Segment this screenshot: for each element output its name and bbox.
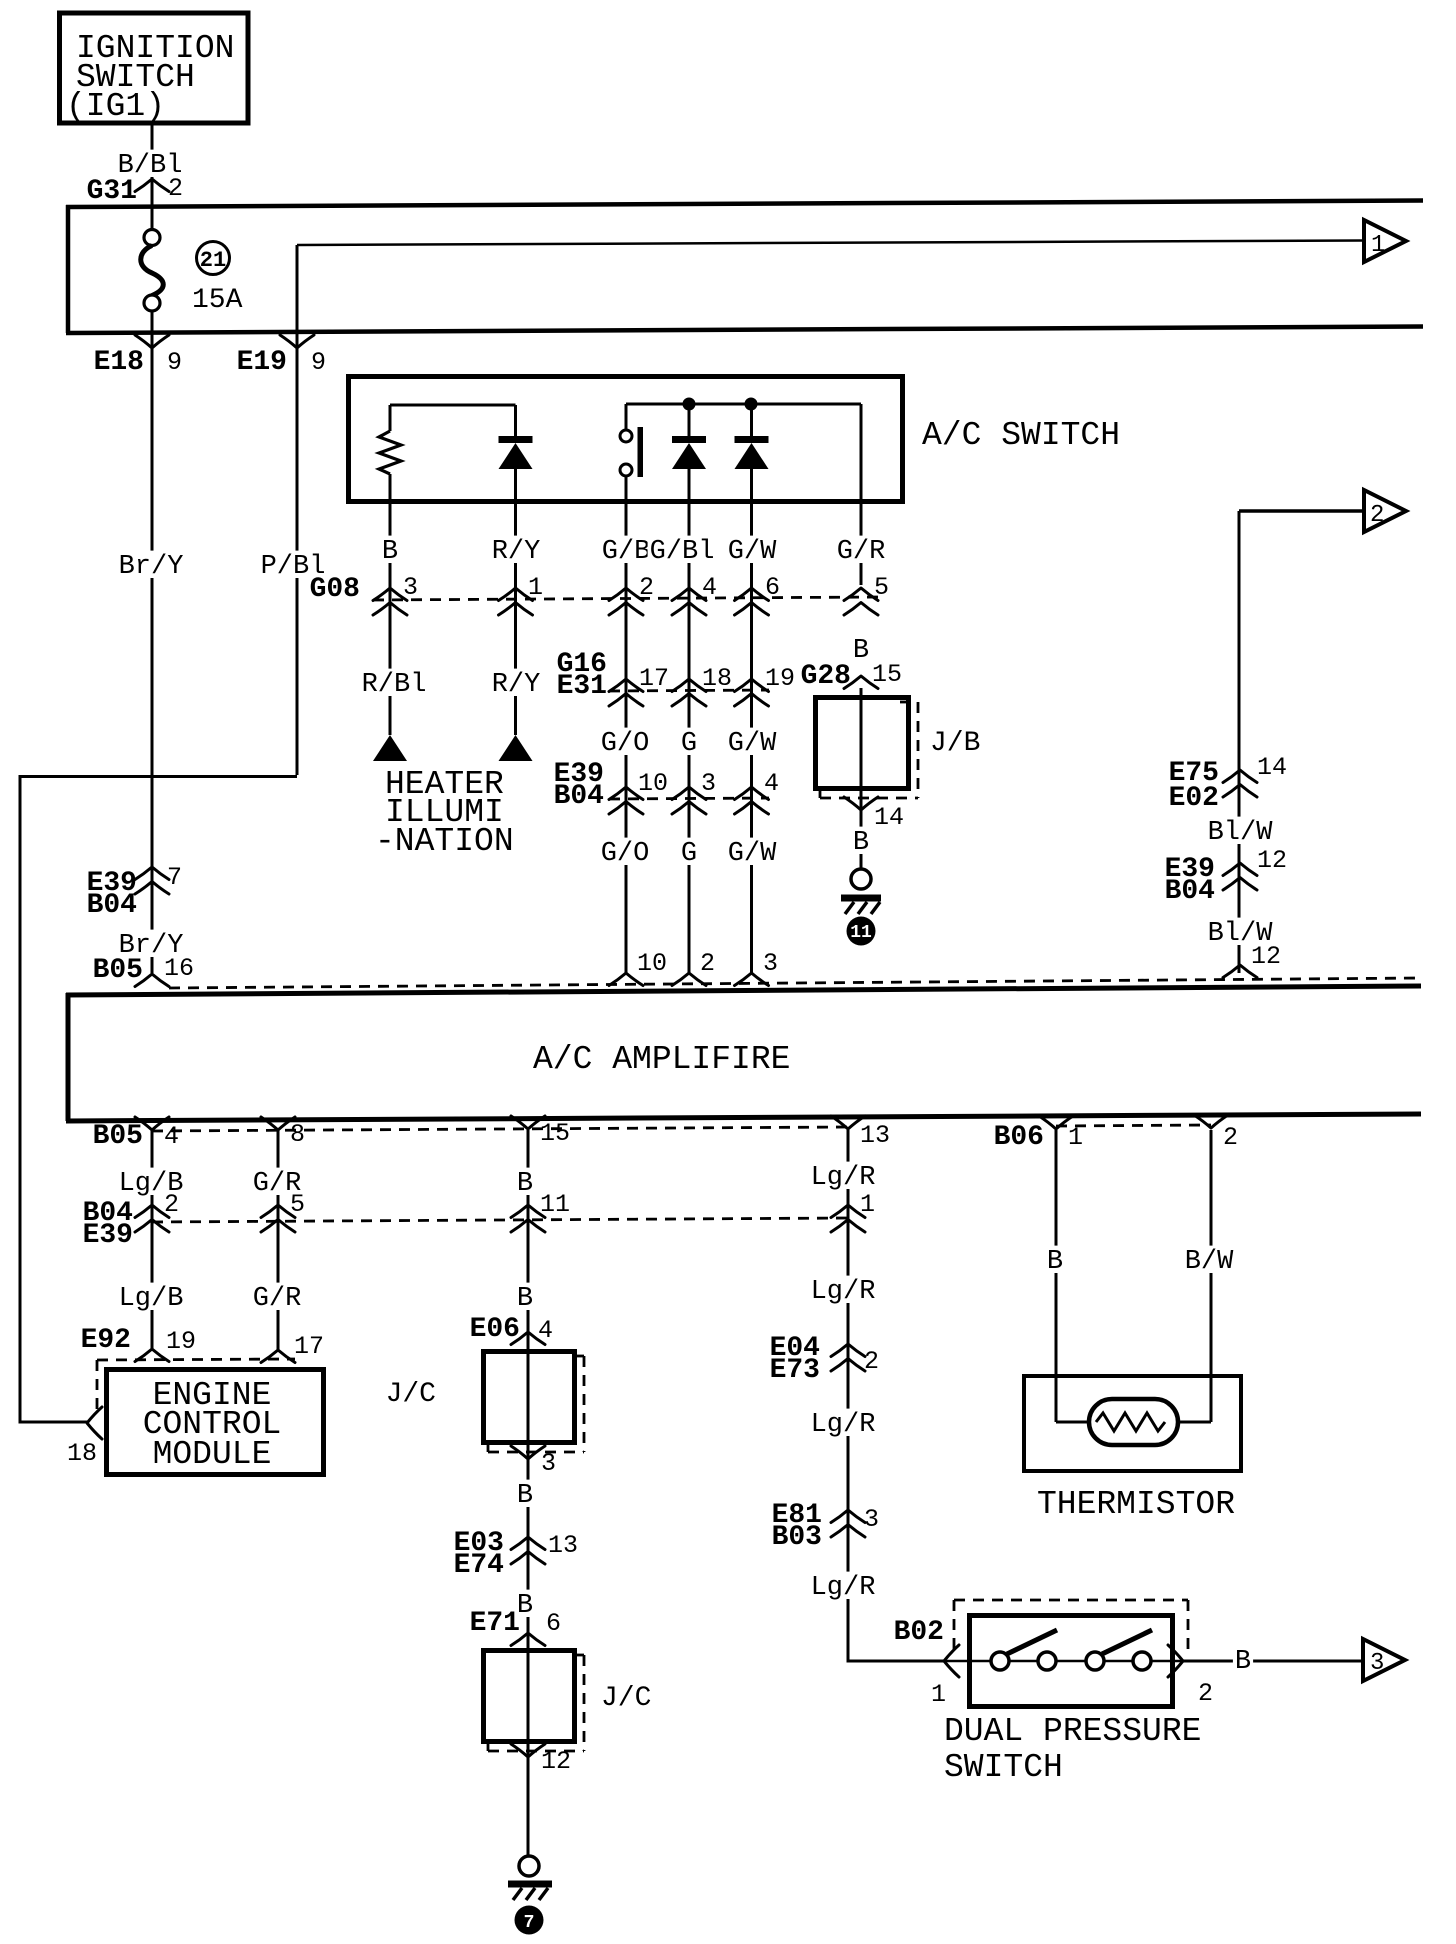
svg-text:B02: B02	[894, 1617, 944, 1648]
svg-text:13: 13	[548, 1531, 578, 1560]
svg-text:15: 15	[540, 1119, 570, 1148]
svg-text:A/C AMPLIFIRE: A/C AMPLIFIRE	[533, 1041, 790, 1078]
connector E39/B04 pin 10	[609, 769, 668, 814]
svg-text:G: G	[681, 839, 697, 869]
svg-text:E92: E92	[81, 1325, 131, 1356]
connector G16/E31 pin 17	[609, 664, 669, 706]
svg-text:B: B	[517, 1284, 533, 1314]
svg-text:B04: B04	[1165, 876, 1215, 907]
svg-text:2: 2	[1198, 1679, 1213, 1708]
wire B above G28	[851, 635, 871, 666]
svg-text:3: 3	[864, 1505, 879, 1534]
wire G/Bl (A/C switch pin 4)	[648, 536, 717, 567]
svg-text:G/R: G/R	[253, 1284, 302, 1314]
wire to off-page arrow 1	[297, 241, 1363, 332]
ground number 7	[515, 1906, 544, 1935]
heater illumination label	[375, 766, 514, 860]
connector E92 pin 19	[81, 1325, 196, 1362]
svg-text:A/C SWITCH: A/C SWITCH	[922, 417, 1120, 454]
connector E75/E02 pin 14	[1169, 753, 1287, 814]
wire B above E71	[515, 1590, 535, 1621]
connector E92 pin 18	[67, 1407, 102, 1468]
connector B04/E39 pin 11	[511, 1190, 570, 1232]
svg-text:E71: E71	[470, 1608, 520, 1639]
svg-text:E73: E73	[770, 1355, 820, 1386]
svg-text:3: 3	[403, 573, 418, 602]
dual pressure switch contacts	[944, 1630, 1183, 1670]
connector G16/E31 dashed link	[609, 690, 769, 691]
connector G08 pin 4	[672, 573, 717, 615]
svg-text:G28: G28	[801, 661, 851, 692]
wire G/R (amplifier pin 8)	[251, 1130, 304, 1350]
svg-text:B: B	[1235, 1647, 1251, 1677]
svg-text:B06: B06	[994, 1122, 1044, 1153]
svg-text:1: 1	[860, 1190, 875, 1219]
heater illumination terminal 1	[373, 735, 407, 761]
svg-text:2: 2	[700, 949, 715, 978]
connector B06 dashed link	[1056, 1125, 1211, 1126]
junction dot (diode D3)	[745, 398, 758, 411]
svg-text:1: 1	[931, 1680, 946, 1709]
svg-text:4: 4	[538, 1316, 553, 1345]
connector J/C pin 12	[511, 1744, 571, 1776]
svg-text:Lg/R: Lg/R	[811, 1163, 876, 1193]
svg-text:10: 10	[637, 949, 667, 978]
svg-text:1: 1	[528, 573, 543, 602]
svg-text:G/W: G/W	[728, 839, 777, 869]
connector G08 pin 1	[499, 573, 544, 615]
wire Bl/W (lower)	[1206, 918, 1275, 949]
svg-text:DUAL PRESSURE: DUAL PRESSURE	[944, 1713, 1201, 1750]
connector B05 pin 8	[261, 1117, 305, 1149]
svg-text:2: 2	[168, 174, 183, 203]
svg-text:17: 17	[639, 664, 669, 693]
junction dot (diode D2)	[683, 398, 696, 411]
connector G16/E31 pin 18	[672, 664, 732, 706]
connector E39/B04 pin 7 (Br/Y)	[87, 863, 182, 921]
wire R/Bl to heater illumination	[360, 612, 429, 735]
connector E03/E74 pin 13	[454, 1528, 578, 1581]
svg-text:5: 5	[290, 1190, 305, 1219]
svg-text:3: 3	[1370, 1650, 1384, 1677]
svg-text:9: 9	[311, 348, 326, 377]
svg-text:21: 21	[200, 248, 226, 273]
wire G/R (A/C switch pin 5)	[835, 536, 888, 567]
svg-text:B04: B04	[554, 781, 604, 812]
svg-text:E39: E39	[83, 1220, 133, 1251]
junction connector J/C (lower)	[484, 1651, 652, 1742]
svg-text:5: 5	[874, 573, 889, 602]
off-page arrow 1	[1364, 220, 1406, 262]
off-page arrow 3	[1363, 1639, 1405, 1681]
wire B/B1 from ignition switch	[116, 123, 185, 208]
diode D2	[672, 404, 706, 973]
svg-text:B05: B05	[93, 955, 143, 986]
connector B04/E39 dashed link	[152, 1218, 848, 1222]
amplifier pin 2 (top)	[672, 949, 715, 986]
amplifier pin 3 (top)	[735, 949, 779, 986]
svg-text:Bl/W: Bl/W	[1208, 818, 1274, 848]
svg-text:3: 3	[701, 769, 716, 798]
svg-text:B: B	[517, 1481, 533, 1511]
connector B05 pin 16	[93, 954, 194, 987]
svg-text:G08: G08	[310, 574, 360, 605]
svg-text:1: 1	[1371, 232, 1385, 259]
off-page arrow 2	[1364, 490, 1406, 532]
connector B04/E39 pin 2	[135, 1190, 179, 1232]
svg-text:9: 9	[167, 348, 182, 377]
A/C amplifier box	[66, 986, 1421, 1121]
svg-text:7: 7	[524, 1913, 535, 1933]
connector B06 pin 1	[994, 1116, 1083, 1153]
wire through J/B	[860, 688, 863, 869]
connector J/B pin 14	[844, 797, 904, 832]
svg-text:MODULE: MODULE	[153, 1436, 272, 1473]
connector E92 pin 17	[261, 1332, 324, 1363]
svg-text:2: 2	[1223, 1123, 1238, 1152]
svg-text:E02: E02	[1169, 783, 1219, 814]
ground (J/C circuit)	[508, 1856, 552, 1900]
svg-text:G/Bl: G/Bl	[650, 537, 715, 567]
wire G/O label (upper)	[599, 728, 652, 759]
connector G28 pin 15	[801, 660, 902, 692]
connector B04/E39 pin 1	[831, 1190, 875, 1232]
svg-text:E19: E19	[237, 347, 287, 378]
connector G08 pin 2	[609, 573, 654, 615]
svg-text:18: 18	[702, 664, 732, 693]
wire G/O label (lower)	[599, 838, 652, 869]
connector G08 pin 3	[373, 573, 418, 615]
connector G16/E31 pin 19	[735, 664, 796, 706]
connector G08 pin 5	[844, 573, 889, 615]
svg-text:Lg/R: Lg/R	[811, 1410, 876, 1440]
connector E71 pin 6	[470, 1608, 561, 1646]
connector E39/B04 labels	[554, 759, 604, 812]
svg-text:Lg/R: Lg/R	[811, 1277, 876, 1307]
svg-text:18: 18	[67, 1439, 97, 1468]
connector E19 pin 9	[237, 335, 326, 378]
svg-text:11: 11	[850, 923, 872, 943]
switch contact (A/C switch)	[620, 427, 643, 973]
wire B to arrow 3	[1183, 1646, 1363, 1677]
wire P/Bl to ECM	[19, 245, 328, 1424]
connector E18 pin 9	[94, 335, 182, 378]
svg-text:B: B	[382, 537, 398, 567]
svg-text:G: G	[681, 729, 697, 759]
heater illumination terminal 2	[499, 735, 533, 761]
svg-text:G/B: G/B	[602, 537, 651, 567]
amplifier bottom dashed link	[152, 1127, 848, 1131]
svg-text:19: 19	[166, 1327, 196, 1356]
svg-text:13: 13	[860, 1121, 890, 1150]
svg-text:4: 4	[164, 1122, 179, 1151]
svg-text:8: 8	[290, 1120, 305, 1149]
connector E39/B04 dashed link	[609, 798, 769, 799]
connector E39/B04 pin 4	[735, 769, 780, 814]
svg-text:(IG1): (IG1)	[66, 88, 165, 125]
svg-text:E31: E31	[557, 671, 607, 702]
svg-text:R/Bl: R/Bl	[362, 670, 427, 700]
svg-text:1: 1	[1068, 1123, 1083, 1152]
svg-text:7: 7	[167, 863, 182, 892]
svg-text:16: 16	[164, 954, 194, 983]
wire Bl/W (upper)	[1206, 817, 1275, 848]
svg-text:10: 10	[638, 769, 668, 798]
wire G label (upper)	[679, 728, 699, 759]
svg-text:2: 2	[164, 1190, 179, 1219]
wire G/W label (lower)	[726, 838, 779, 869]
connector E92 dashed outline	[97, 1359, 295, 1409]
svg-text:4: 4	[764, 769, 779, 798]
wire R/Y (A/C switch pin 1)	[490, 536, 543, 567]
junction block J/B dashed outline	[820, 702, 918, 798]
connector E06 pin 4	[470, 1314, 553, 1345]
connector B04/E39 pin 5	[261, 1190, 305, 1232]
connector B05 pin 15	[511, 1116, 570, 1148]
svg-text:E06: E06	[470, 1314, 520, 1345]
ground number 11	[847, 917, 876, 946]
connector G08 label	[310, 574, 360, 605]
svg-text:6: 6	[765, 573, 780, 602]
ignition switch block	[60, 13, 249, 125]
svg-text:THERMISTOR: THERMISTOR	[1037, 1486, 1235, 1523]
svg-text:J/C: J/C	[601, 1683, 651, 1714]
svg-text:G/O: G/O	[601, 839, 650, 869]
A/C switch internal bus	[626, 404, 861, 585]
amplifier top dashed link	[169, 978, 1421, 988]
svg-text:SWITCH: SWITCH	[944, 1749, 1063, 1786]
amplifier pin 10	[609, 949, 667, 986]
connector G08 pin 6	[735, 573, 781, 615]
svg-text:6: 6	[546, 1609, 561, 1638]
wire G/W (A/C switch pin 6)	[726, 536, 779, 567]
wire G label (lower)	[679, 838, 699, 869]
connector B05 pin 12	[1223, 942, 1281, 978]
svg-text:J/B: J/B	[930, 728, 980, 759]
wire B/W to thermistor	[1183, 1130, 1236, 1422]
svg-text:3: 3	[763, 949, 778, 978]
svg-text:Br/Y: Br/Y	[119, 552, 184, 582]
wire G/B (A/C switch pin 2)	[600, 536, 653, 567]
connector G08 dashed link	[373, 597, 878, 600]
connector B06 pin 2	[1194, 1115, 1238, 1152]
svg-text:R/Y: R/Y	[492, 670, 541, 700]
wire R/Y to heater illumination	[490, 669, 543, 700]
svg-text:2: 2	[639, 573, 654, 602]
connector B04/E39 labels	[83, 1198, 133, 1251]
svg-text:19: 19	[765, 664, 795, 693]
svg-text:Lg/R: Lg/R	[811, 1573, 876, 1603]
svg-text:G31: G31	[87, 176, 137, 207]
connector B05 pin 4	[93, 1117, 179, 1152]
svg-text:G/W: G/W	[728, 537, 777, 567]
wire B (amplifier pin 15)	[515, 1130, 535, 1857]
wire B to thermistor	[1045, 1130, 1065, 1422]
connector E39/B04 pin 3	[672, 769, 716, 814]
fuse 21 15A	[141, 208, 243, 335]
svg-text:14: 14	[874, 803, 904, 832]
diode D1	[499, 436, 533, 735]
svg-text:E18: E18	[94, 347, 144, 378]
junction connector J/C dashed outline (upper)	[488, 1356, 584, 1452]
svg-text:12: 12	[541, 1747, 571, 1776]
svg-text:B: B	[853, 828, 869, 858]
diode D3	[735, 404, 769, 973]
dual pressure switch box	[970, 1616, 1173, 1707]
svg-text:G/W: G/W	[728, 729, 777, 759]
svg-text:3: 3	[541, 1449, 556, 1478]
thermistor box	[1024, 1376, 1241, 1523]
connector E81/B03 pin 3	[772, 1500, 879, 1553]
dual pressure switch label	[944, 1713, 1201, 1786]
wire Br/Y (left column)	[117, 335, 186, 973]
svg-text:2: 2	[1370, 502, 1384, 529]
svg-text:15: 15	[872, 660, 902, 689]
connector B02 pin 1	[894, 1617, 959, 1709]
connector J/C pin 3	[511, 1446, 556, 1478]
svg-text:G/O: G/O	[601, 729, 650, 759]
wire B (A/C switch pin 3)	[380, 536, 400, 567]
svg-text:B03: B03	[772, 1522, 822, 1553]
ignition feed bus (fuse box)	[66, 201, 1423, 334]
connector G31 pin 2	[87, 174, 183, 207]
wire G/W label (mid)	[726, 728, 779, 759]
svg-text:-NATION: -NATION	[375, 823, 514, 860]
resistor (illumination) in A/C switch	[379, 405, 401, 614]
svg-text:E74: E74	[454, 1550, 504, 1581]
svg-text:B: B	[1047, 1247, 1063, 1277]
svg-text:Lg/B: Lg/B	[119, 1284, 184, 1314]
svg-text:R/Y: R/Y	[492, 537, 541, 567]
connector B05 pin 13	[831, 1116, 890, 1150]
dual pressure switch dashed outline	[954, 1600, 1188, 1650]
connector G16/E31 labels	[557, 649, 607, 702]
connector E39/B04 pin 12 (right)	[1165, 846, 1287, 907]
A/C switch box	[349, 377, 1121, 502]
svg-text:12: 12	[1257, 846, 1287, 875]
svg-text:B04: B04	[87, 890, 137, 921]
wire to off-page arrow 2	[1239, 511, 1364, 973]
svg-text:J/C: J/C	[386, 1379, 436, 1410]
connector E04/E73 pin 2	[770, 1333, 879, 1386]
svg-text:15A: 15A	[192, 285, 243, 316]
svg-text:B05: B05	[93, 1121, 143, 1152]
svg-text:2: 2	[864, 1347, 879, 1376]
wire B below J/C	[515, 1480, 535, 1511]
wire Lg/R (amplifier pin 13)	[809, 1130, 944, 1661]
svg-text:4: 4	[702, 573, 717, 602]
wire B below J/B	[851, 827, 871, 858]
wire resistor to diode D1	[390, 405, 516, 436]
wire Lg/B	[117, 1130, 186, 1349]
svg-text:B: B	[853, 636, 869, 666]
svg-text:G/R: G/R	[837, 537, 886, 567]
ground (G28 circuit)	[841, 869, 881, 914]
svg-text:B/W: B/W	[1185, 1247, 1234, 1277]
junction connector J/C dashed outline (lower)	[488, 1655, 584, 1751]
svg-text:17: 17	[294, 1332, 324, 1361]
engine control module box	[107, 1370, 324, 1475]
svg-text:11: 11	[540, 1190, 570, 1219]
svg-text:12: 12	[1251, 942, 1281, 971]
svg-text:B: B	[517, 1169, 533, 1199]
junction connector J/C (upper)	[386, 1352, 575, 1443]
junction block J/B	[816, 698, 981, 789]
svg-text:14: 14	[1257, 753, 1287, 782]
connector pin 2 (dual pressure switch)	[1168, 1645, 1213, 1708]
